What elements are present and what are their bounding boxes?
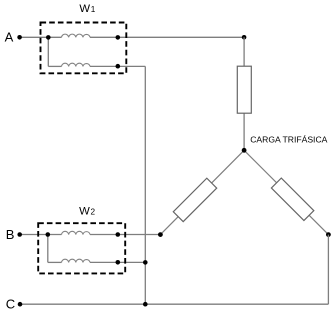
resistor: load phase B (diagonal) xyxy=(173,178,216,221)
wire: W1 voltage-coil branch out to vertical bus xyxy=(90,65,145,67)
wire: phase C line from terminal C to right corner xyxy=(20,303,328,305)
node: W1 current coil polarity dot xyxy=(116,35,121,40)
wire: W2 internal vertical branch (voltage coil tap) xyxy=(47,235,49,263)
inductor: W2 voltage coil xyxy=(62,259,91,262)
svg-text:C: C xyxy=(6,296,15,309)
resistor: load phase C (diagonal) xyxy=(271,178,313,220)
wire: vertical bus from W1 voltage coil down to phase C xyxy=(144,66,146,304)
node: left load node dot xyxy=(158,232,163,237)
wire: phase B line from terminal B to W2 current coil xyxy=(20,234,62,236)
node: junction of W2 voltage branch with vertical bus xyxy=(143,260,148,265)
wire: W1 internal vertical branch (voltage coil tap) xyxy=(47,37,49,66)
node: star point of load xyxy=(242,148,247,153)
wattmeter W1 dashed box xyxy=(41,23,127,74)
svg-text:2: 2 xyxy=(91,208,96,217)
wire: phase B line after W2 current coil to left load node xyxy=(90,234,160,236)
inductor: W2 current coil xyxy=(62,231,91,234)
node: W1 voltage coil polarity dot xyxy=(116,64,121,69)
svg-text:W: W xyxy=(79,206,90,218)
svg-text:1: 1 xyxy=(91,5,96,14)
wire: W2 voltage-coil branch lead-in xyxy=(48,261,62,263)
node: right load node dot xyxy=(326,232,331,237)
wire: W1 voltage-coil branch lead-in xyxy=(48,65,61,67)
node: W2 input junction dot xyxy=(46,232,51,237)
node: terminal A dot xyxy=(17,35,22,40)
node: W1 input junction dot xyxy=(46,35,51,40)
svg-text:W: W xyxy=(79,3,90,15)
wire: phase A line after W1 current coil to top node xyxy=(90,36,244,38)
wire: load resistor down to star point xyxy=(243,113,245,150)
node: W2 current coil polarity dot xyxy=(116,232,121,237)
wire: top node down to load resistor xyxy=(243,37,245,66)
wire: W2 voltage-coil branch out to vertical bus xyxy=(90,261,145,263)
wire: star point to left node (phase B diagonal) xyxy=(160,150,244,234)
node: top junction above load resistor xyxy=(242,35,247,40)
svg-text:A: A xyxy=(5,29,14,44)
wire: star point to right node (phase C diagonal) xyxy=(244,150,328,234)
wattmeter W2 dashed box xyxy=(38,223,125,273)
inductor: W1 voltage coil xyxy=(62,63,91,66)
inductor: W1 current coil xyxy=(62,34,91,37)
wire: right load node down to phase C level xyxy=(327,235,329,305)
svg-text:CARGA TRIFÁSICA: CARGA TRIFÁSICA xyxy=(250,135,327,145)
wire: phase A line from terminal A to top node xyxy=(20,36,62,38)
node: W2 voltage coil polarity dot xyxy=(116,260,121,265)
node: terminal B dot xyxy=(17,232,22,237)
resistor: load phase A (vertical) xyxy=(237,66,251,113)
node: terminal C dot xyxy=(18,302,23,307)
node: junction of vertical bus with phase C xyxy=(143,302,148,307)
svg-text:B: B xyxy=(6,227,15,242)
